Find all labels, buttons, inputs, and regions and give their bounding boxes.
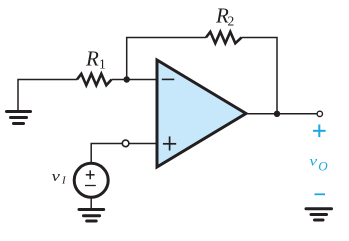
resistor R2 [206,32,242,44]
node A (junction dot at inverting input) [124,76,130,82]
node B (junction dot at output) [274,111,280,117]
wire: feedback left riser [127,38,206,80]
svg-text:R: R [85,47,99,71]
ground (below vI) [79,210,104,222]
label - (output polarity, cyan) [315,193,326,195]
minus sign (inverting input marker) [162,78,175,80]
minus inside source [85,185,96,187]
wire: vI source top to input terminal circle [91,144,122,163]
wire: op-amp output to terminal [246,113,317,115]
ground (left) [7,112,31,124]
plus inside source [86,174,95,176]
wire: terminal to op-amp plus input [129,143,157,145]
plus sign (non-inverting input marker) [163,143,176,145]
resistor R1 [77,74,112,86]
svg-text:I: I [61,175,67,187]
output terminal (open circle) [317,111,322,116]
ground (right, output reference) [306,209,332,220]
wire: R1 to op-amp inverting input [112,79,158,81]
svg-text:v: v [309,154,318,169]
svg-text:v: v [52,169,61,185]
svg-text:2: 2 [228,14,235,29]
label + (output polarity, cyan) [313,125,326,138]
voltage source vI [74,163,108,197]
op-amp U1 [157,60,246,167]
wire: R2 to output riser [242,38,278,114]
wire: vI source bottom to ground [90,197,92,209]
input terminal (open circle at non-inverting input) [122,140,129,147]
svg-text:1: 1 [99,57,106,72]
svg-text:O: O [318,158,328,173]
wire: left ground riser [18,80,77,112]
